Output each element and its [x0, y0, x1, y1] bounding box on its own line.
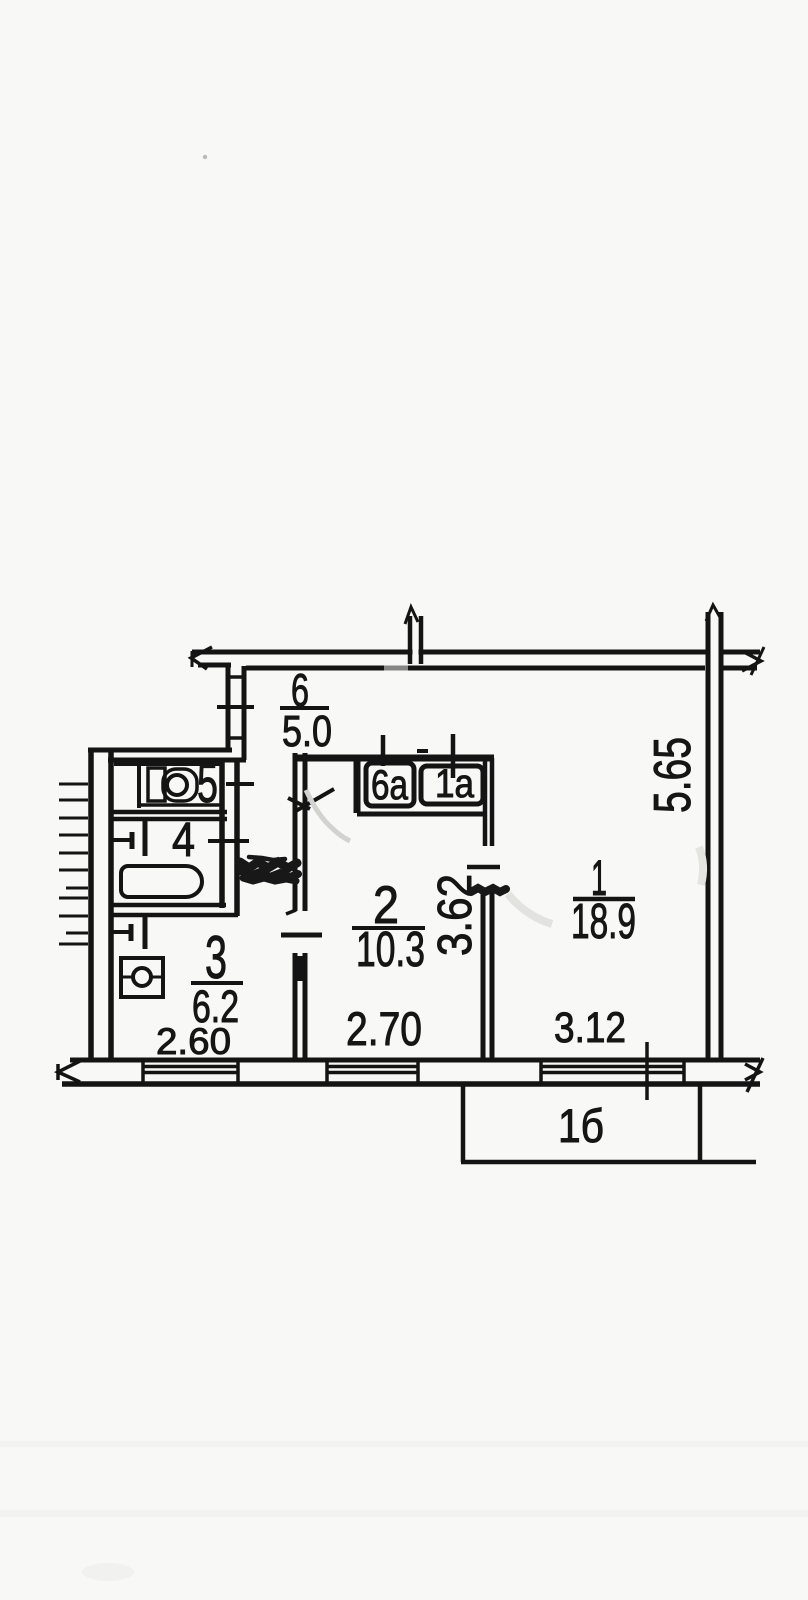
- ink smudge wall top: [471, 888, 506, 892]
- balcony hatch rail: [59, 784, 88, 944]
- bath room bottom wall: [111, 905, 238, 915]
- closet block bottom: [357, 812, 487, 817]
- bottom wall: [62, 1060, 760, 1084]
- window room 1: [541, 1060, 684, 1084]
- room 2 left wall upper: [295, 753, 305, 911]
- svg-text:5.0: 5.0: [282, 707, 332, 756]
- door tick bath: [208, 839, 249, 843]
- door tick toilet: [226, 782, 254, 786]
- room 2 fraction bar: [352, 926, 425, 930]
- hall fraction bar: [280, 706, 329, 710]
- left outer wall: [91, 748, 111, 1060]
- wall between rooms 1 and 2: [483, 888, 492, 1058]
- toilet fixture: [139, 764, 197, 808]
- top wall left arrow: [191, 647, 212, 669]
- closet 6a box: [366, 763, 414, 806]
- balcony 1b outline: [461, 1086, 756, 1162]
- vent stack white channel through wall: [413, 648, 419, 657]
- scan streak lower: [0, 1510, 808, 1517]
- pencil smudge gray 2: [508, 894, 552, 924]
- room 3 door dash: [281, 933, 322, 938]
- ink smudge hall: [240, 857, 298, 881]
- toilet room walls: [111, 760, 237, 916]
- room 1 fraction bar: [573, 897, 635, 902]
- closet block left edge: [354, 758, 361, 813]
- room 2 wall end tick: [286, 910, 296, 914]
- room 3 door: [113, 917, 145, 949]
- top wall: [192, 652, 760, 668]
- scan blotch left bottom: [82, 1563, 134, 1581]
- window divider tick room 1: [645, 1042, 649, 1100]
- window room 3: [143, 1060, 238, 1084]
- closet block right wall: [485, 758, 492, 846]
- bath tub: [121, 866, 202, 897]
- scan speck: [203, 155, 207, 159]
- bathroom block top wall: [88, 750, 246, 760]
- room 3 fraction bar: [191, 981, 243, 985]
- scan fade on top wall stroke: [384, 664, 408, 672]
- vent stack on top wall: [405, 607, 421, 664]
- svg-text:10.3: 10.3: [356, 923, 425, 977]
- svg-text:1б: 1б: [558, 1099, 604, 1152]
- pencil smudge gray 3: [699, 847, 703, 885]
- closet block top wall: [293, 751, 494, 758]
- room 2 left wall lower: [295, 953, 305, 1058]
- closet vent pipes: [383, 734, 453, 778]
- svg-text:4: 4: [172, 814, 195, 867]
- svg-text:2.60: 2.60: [156, 1021, 231, 1062]
- right wall top arrow: [706, 605, 721, 621]
- svg-text:6а: 6а: [371, 761, 409, 808]
- hall left wall: [217, 666, 254, 760]
- svg-text:3.12: 3.12: [554, 1004, 626, 1052]
- svg-text:5: 5: [197, 751, 218, 814]
- closet 1a box: [421, 766, 483, 804]
- window room 2: [327, 1060, 418, 1084]
- bottom wall left arrow: [58, 1061, 80, 1082]
- svg-text:5.65: 5.65: [644, 737, 702, 813]
- bottom wall right break mark: [745, 1058, 763, 1092]
- top wall right arrow: [742, 647, 764, 675]
- right wall: [708, 612, 721, 1060]
- pencil smudge hall gray: [306, 790, 350, 841]
- svg-text:18.9: 18.9: [571, 895, 636, 949]
- bath room door jamb: [113, 820, 145, 856]
- sink room 3: [121, 958, 163, 997]
- svg-text:2.70: 2.70: [346, 1002, 422, 1055]
- room 2 door leaf: [288, 789, 334, 812]
- scan streak upper: [0, 1441, 808, 1447]
- right wall white channel through top wall stroke: [711, 648, 719, 657]
- tick above 3.62: [467, 865, 500, 870]
